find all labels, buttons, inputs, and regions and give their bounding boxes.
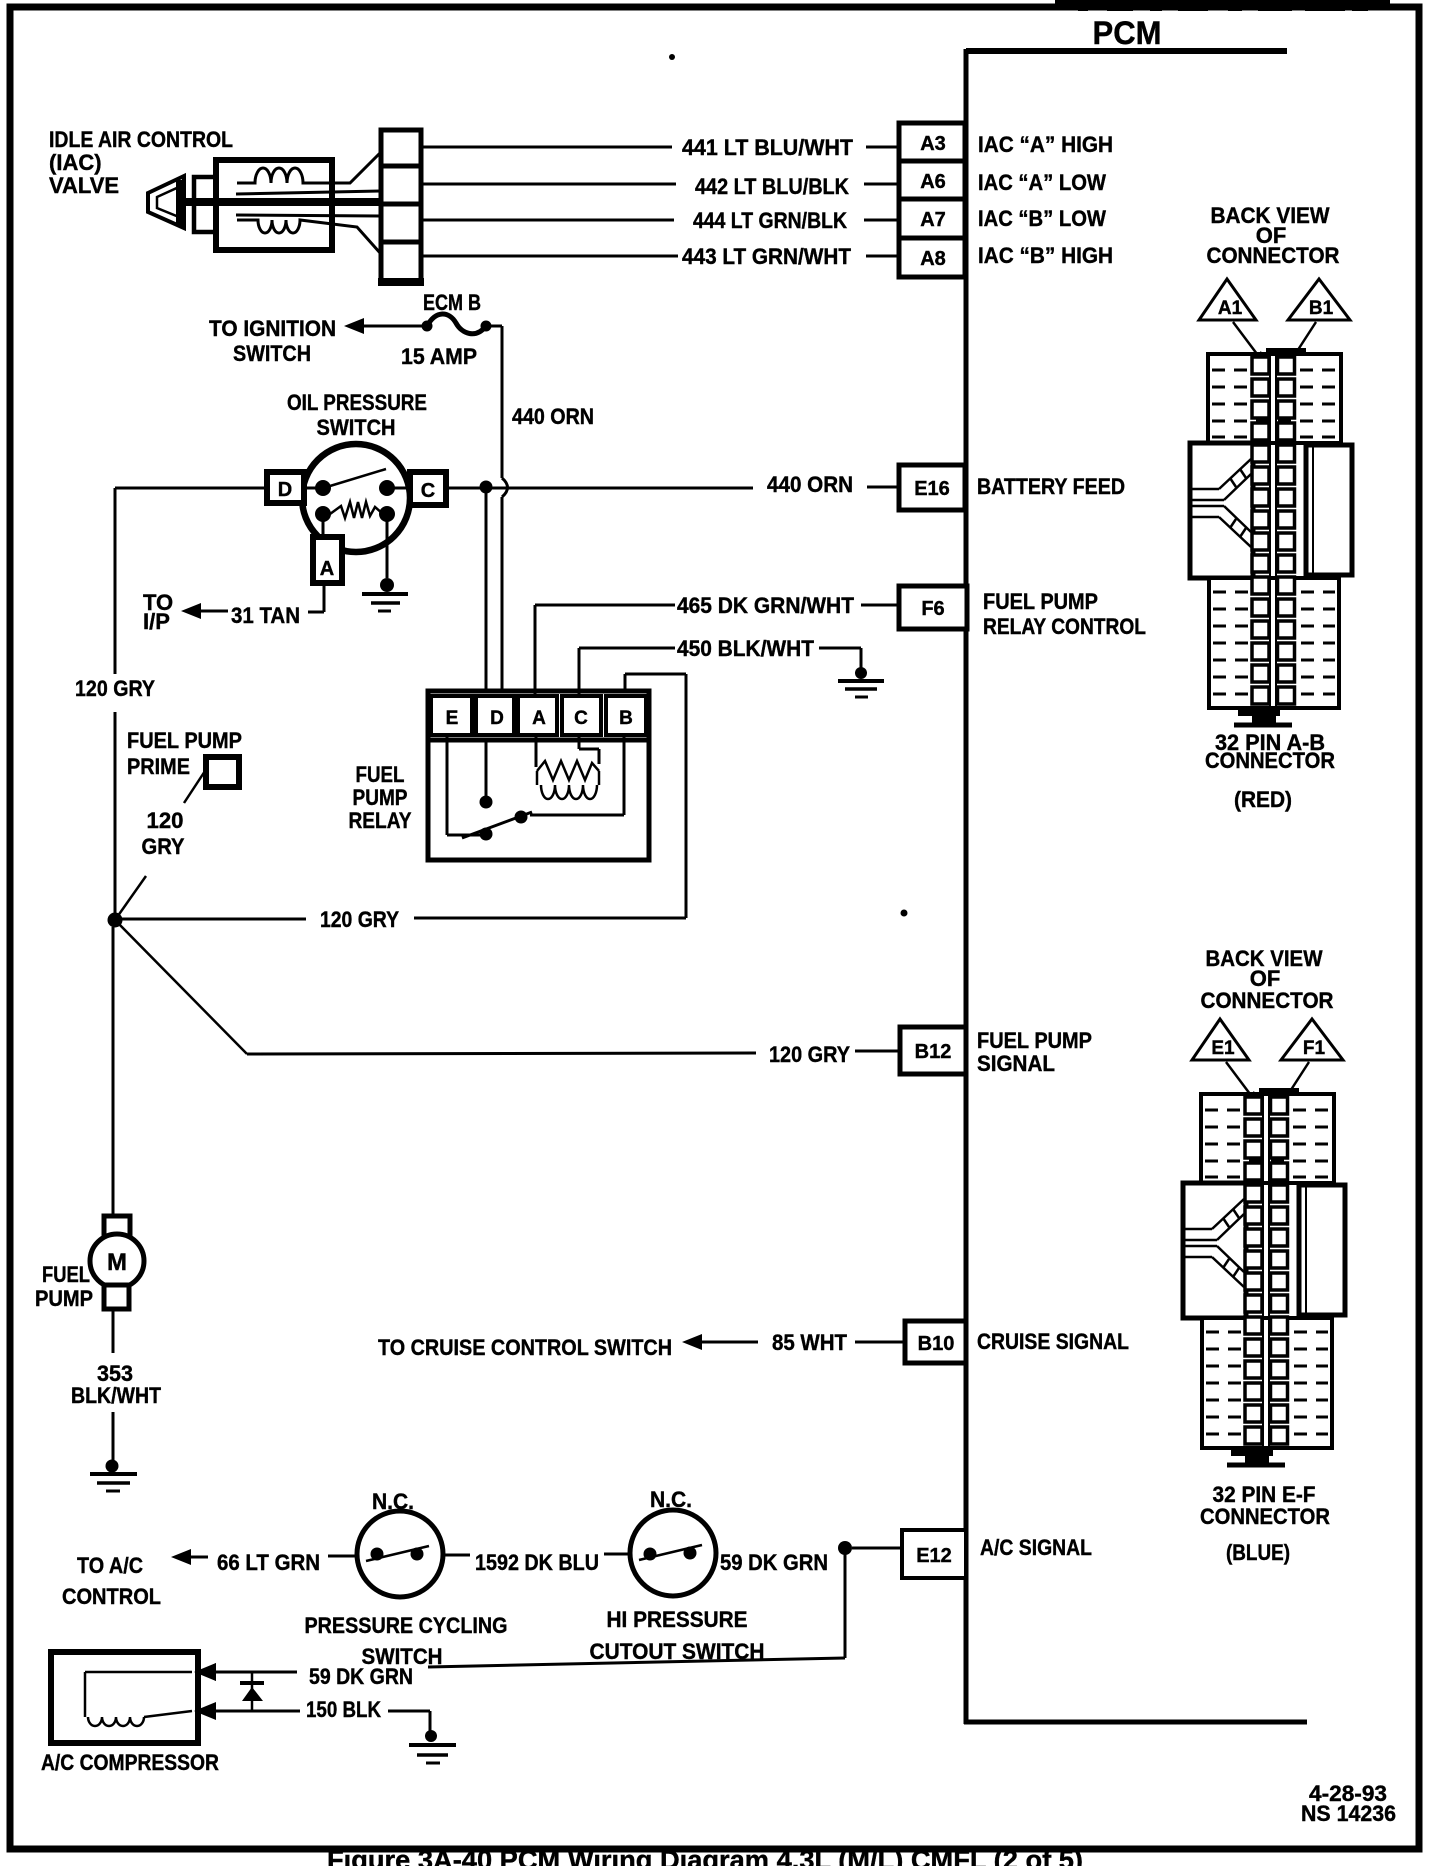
svg-text:SIGNAL: SIGNAL (977, 1051, 1055, 1076)
svg-text:TO IGNITION: TO IGNITION (209, 316, 336, 341)
svg-text:A: A (320, 558, 334, 580)
svg-text:FUEL: FUEL (42, 1262, 90, 1287)
svg-text:VALVE: VALVE (49, 173, 119, 198)
svg-text:M: M (107, 1249, 127, 1276)
svg-text:CONNECTOR: CONNECTOR (1201, 988, 1334, 1013)
svg-text:IAC “B” HIGH: IAC “B” HIGH (978, 243, 1113, 268)
svg-text:440 ORN: 440 ORN (767, 472, 853, 497)
svg-text:BLK/WHT: BLK/WHT (71, 1383, 161, 1408)
svg-text:RELAY: RELAY (349, 808, 412, 833)
svg-text:CONNECTOR: CONNECTOR (1205, 748, 1335, 773)
svg-text:FUEL PUMP: FUEL PUMP (977, 1028, 1092, 1053)
svg-text:A7: A7 (920, 209, 946, 231)
svg-text:CONTROL: CONTROL (62, 1584, 161, 1609)
svg-text:BATTERY FEED: BATTERY FEED (977, 474, 1125, 499)
svg-text:E12: E12 (916, 1545, 952, 1567)
svg-text:RELAY CONTROL: RELAY CONTROL (983, 614, 1146, 639)
svg-text:120 GRY: 120 GRY (75, 676, 155, 701)
svg-text:442 LT BLU/BLK: 442 LT BLU/BLK (695, 174, 849, 199)
svg-text:C: C (421, 480, 435, 502)
svg-text:PUMP: PUMP (353, 785, 408, 810)
svg-text:F6: F6 (921, 598, 944, 620)
svg-text:(RED): (RED) (1234, 787, 1292, 812)
svg-text:15 AMP: 15 AMP (401, 344, 477, 369)
svg-text:465 DK GRN/WHT: 465 DK GRN/WHT (677, 593, 855, 618)
svg-text:TO A/C: TO A/C (77, 1553, 143, 1578)
svg-text:441 LT BLU/WHT: 441 LT BLU/WHT (682, 135, 854, 160)
svg-text:IAC “A” HIGH: IAC “A” HIGH (978, 132, 1113, 157)
svg-text:D: D (278, 479, 292, 501)
svg-text:ECM B: ECM B (423, 290, 481, 315)
svg-text:SWITCH: SWITCH (233, 341, 311, 366)
svg-text:CONNECTOR: CONNECTOR (1200, 1504, 1330, 1529)
svg-text:E16: E16 (914, 478, 950, 500)
svg-text:CRUISE SIGNAL: CRUISE SIGNAL (977, 1329, 1129, 1354)
svg-text:A8: A8 (920, 248, 946, 270)
svg-text:IDLE AIR CONTROL: IDLE AIR CONTROL (49, 127, 233, 152)
svg-text:PCM: PCM (1093, 15, 1162, 51)
svg-text:A/C COMPRESSOR: A/C COMPRESSOR (41, 1750, 219, 1775)
svg-text:66 LT GRN: 66 LT GRN (217, 1550, 320, 1575)
svg-text:B: B (619, 708, 633, 729)
svg-text:OIL PRESSURE: OIL PRESSURE (287, 390, 427, 415)
svg-text:444 LT GRN/BLK: 444 LT GRN/BLK (693, 208, 847, 233)
svg-text:440 ORN: 440 ORN (512, 404, 594, 429)
svg-text:(BLUE): (BLUE) (1226, 1540, 1290, 1565)
svg-text:C: C (574, 708, 588, 729)
svg-text:120: 120 (147, 808, 184, 833)
svg-text:PRESSURE CYCLING: PRESSURE CYCLING (305, 1613, 508, 1638)
svg-text:PRIME: PRIME (127, 754, 190, 779)
svg-text:443 LT GRN/WHT: 443 LT GRN/WHT (682, 244, 852, 269)
svg-text:Figure 3A-40 PCM Wiring Diagr: Figure 3A-40 PCM Wiring Diagram 4.3L (M/… (327, 1845, 1083, 1866)
svg-text:CONNECTOR: CONNECTOR (1207, 243, 1340, 268)
svg-text:NS 14236: NS 14236 (1301, 1801, 1396, 1826)
svg-text:E1: E1 (1211, 1038, 1235, 1059)
svg-text:IAC “B” LOW: IAC “B” LOW (978, 206, 1106, 231)
svg-text:31 TAN: 31 TAN (231, 603, 300, 628)
svg-text:150 BLK: 150 BLK (306, 1697, 381, 1722)
svg-text:59 DK GRN: 59 DK GRN (720, 1550, 828, 1575)
svg-text:A/C SIGNAL: A/C SIGNAL (980, 1535, 1092, 1560)
svg-text:(IAC): (IAC) (49, 150, 102, 175)
svg-text:B1: B1 (1309, 298, 1334, 319)
svg-text:A: A (532, 708, 546, 729)
svg-text:GRY: GRY (142, 834, 185, 859)
svg-text:FUEL PUMP: FUEL PUMP (983, 589, 1098, 614)
svg-text:SWITCH: SWITCH (317, 415, 396, 440)
svg-text:A6: A6 (920, 171, 946, 193)
svg-text:120 GRY: 120 GRY (320, 907, 399, 932)
svg-text:FUEL: FUEL (356, 762, 405, 787)
svg-text:IAC “A” LOW: IAC “A” LOW (978, 170, 1106, 195)
svg-text:B10: B10 (918, 1333, 955, 1355)
svg-text:FUEL PUMP: FUEL PUMP (127, 728, 242, 753)
svg-text:D: D (490, 708, 504, 729)
svg-text:A3: A3 (920, 133, 946, 155)
svg-text:HI PRESSURE: HI PRESSURE (607, 1607, 748, 1632)
svg-text:B12: B12 (915, 1041, 952, 1063)
svg-text:120 GRY: 120 GRY (769, 1042, 850, 1067)
svg-text:TO CRUISE CONTROL SWITCH: TO CRUISE CONTROL SWITCH (378, 1335, 672, 1360)
svg-text:I/P: I/P (143, 609, 170, 634)
svg-text:450 BLK/WHT: 450 BLK/WHT (677, 636, 815, 661)
svg-text:E: E (446, 708, 459, 729)
svg-text:1592 DK BLU: 1592 DK BLU (475, 1550, 599, 1575)
svg-text:A1: A1 (1218, 298, 1243, 319)
svg-text:85 WHT: 85 WHT (772, 1330, 848, 1355)
svg-text:F1: F1 (1303, 1038, 1326, 1059)
svg-text:59 DK GRN: 59 DK GRN (309, 1664, 413, 1689)
svg-text:PUMP: PUMP (35, 1286, 93, 1311)
